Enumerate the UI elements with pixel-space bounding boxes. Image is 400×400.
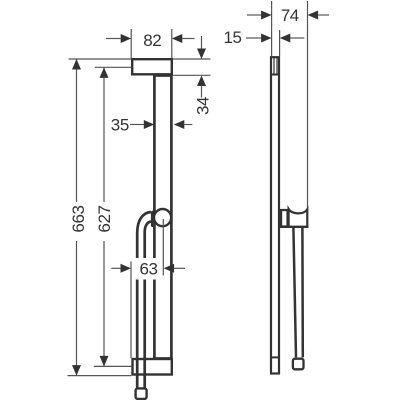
dimension 63 right tail bbox=[174, 267, 185, 269]
dimension 627 bottom arrow bbox=[100, 356, 109, 367]
dimension 63 right arrow bbox=[164, 264, 175, 273]
svg-text:627: 627 bbox=[95, 205, 114, 232]
dimension 627 vertical line bbox=[103, 67, 105, 202]
front view: bottom wall bracket bbox=[133, 359, 172, 375]
dimension 35 left arrow bbox=[144, 120, 155, 129]
svg-text:15: 15 bbox=[224, 28, 242, 47]
side view: bar inner cap left line bbox=[273, 57, 275, 75]
extension line x163.3 from knob center for dim 63 bbox=[162, 219, 164, 276]
svg-text:82: 82 bbox=[143, 31, 161, 50]
dimension 627 top arrow bbox=[100, 67, 109, 78]
dimension 63 label background bbox=[136, 258, 162, 280]
dimension 74 left arrow bbox=[261, 11, 272, 20]
extension line y366.4 bbox=[94, 365, 132, 367]
extension line x271.6 side bar left bbox=[271, 1, 273, 56]
dimension 34 lower line bbox=[201, 86, 203, 98]
dimension 82 left arrow bbox=[121, 34, 132, 43]
extension line x131.2 above bracket bbox=[130, 29, 132, 58]
extension line x131 for dim 63 bbox=[130, 262, 132, 359]
svg-text:74: 74 bbox=[281, 6, 299, 25]
dimension 74 right arrow bbox=[308, 11, 319, 20]
dimension 63 left tail bbox=[111, 267, 122, 269]
side view: hose right line bbox=[301, 228, 304, 358]
side view: holder body concave top bbox=[289, 209, 308, 227]
dimension 34 up arrow bbox=[197, 76, 206, 87]
dimension 35 right tail bbox=[184, 124, 193, 126]
dimension 663 top arrow bbox=[72, 59, 81, 70]
side view: hose left line bbox=[293, 228, 296, 358]
front view: hose inner curve and drop bbox=[145, 222, 151, 388]
side view: slider clamp bbox=[281, 210, 287, 227]
dimension 82 left tail bbox=[106, 38, 122, 40]
front view: slider clamp bbox=[151, 211, 155, 227]
dimension 15 left tail bbox=[246, 37, 262, 39]
side view: wall bar bbox=[271, 57, 279, 373]
svg-text:35: 35 bbox=[111, 115, 129, 134]
dimension 35 left tail bbox=[130, 124, 145, 126]
extension line y67.3 bbox=[95, 66, 131, 68]
extension line y75.3 bbox=[173, 74, 211, 76]
svg-text:34: 34 bbox=[193, 97, 212, 115]
dimension 663 vertical line bbox=[76, 59, 78, 202]
side view: bar cap joint line bbox=[271, 74, 280, 76]
extension line x171.8 above bracket bbox=[171, 29, 173, 58]
dimension 82 right arrow bbox=[172, 34, 183, 43]
dimension 74 right tail bbox=[318, 14, 329, 16]
dimension 74 left tail bbox=[247, 14, 262, 16]
svg-text:63: 63 bbox=[140, 260, 158, 279]
dimension 34 upper line bbox=[201, 36, 203, 49]
side view: bar bottom joint line bbox=[271, 356, 280, 358]
dimension 15 left arrow bbox=[261, 34, 272, 43]
front view: top wall bracket bbox=[132, 59, 172, 74]
dimension 63 left arrow bbox=[121, 264, 132, 273]
dimension 15 right tail bbox=[290, 37, 305, 39]
front view: hose outer curve and drop bbox=[137, 212, 151, 388]
extension line x279.6 side bar right bbox=[279, 30, 281, 56]
extension line y375.6 bbox=[68, 375, 132, 377]
side view: bar inner cap right line bbox=[276, 57, 278, 75]
side view: hose connector nut bbox=[293, 359, 304, 370]
front view: wall bar bbox=[154, 76, 171, 359]
dimension 663 bottom arrow bbox=[72, 365, 81, 376]
front view: slider knob circle bbox=[154, 209, 171, 226]
extension line top y59 bbox=[69, 58, 211, 60]
dimension 34 down arrow bbox=[197, 49, 206, 60]
front view: hose connector nut bbox=[136, 388, 147, 399]
dimension 82 right tail bbox=[182, 38, 195, 40]
dimension 15 right arrow bbox=[280, 34, 291, 43]
wall line side view bbox=[307, 1, 309, 208]
dimension 35 right arrow bbox=[174, 120, 185, 129]
side view: holder bottom line bbox=[280, 226, 308, 228]
svg-text:663: 663 bbox=[69, 205, 88, 232]
